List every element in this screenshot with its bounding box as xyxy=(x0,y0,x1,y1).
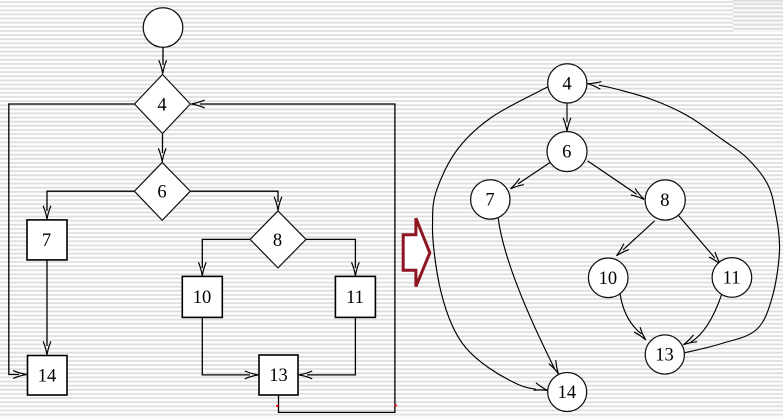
process box 10 xyxy=(182,276,222,317)
process box 11 xyxy=(335,276,375,317)
svg-text:8: 8 xyxy=(660,191,669,211)
svg-text:14: 14 xyxy=(558,383,577,403)
graph node 11 xyxy=(712,258,752,298)
graph node 13 xyxy=(645,335,684,374)
graph node 14 xyxy=(548,373,587,412)
graph node 8 xyxy=(645,180,685,220)
red transform arrow xyxy=(403,218,430,286)
wire 8 to process 10 xyxy=(202,239,250,268)
wire 13 loop back to decision 4 xyxy=(200,104,395,412)
wire 4 to decision 6 xyxy=(162,134,164,153)
svg-text:11: 11 xyxy=(346,288,364,308)
svg-text:8: 8 xyxy=(273,231,282,251)
edge 11 to 13 xyxy=(691,294,722,342)
wire 8 to process 11 xyxy=(306,239,355,268)
edge 6 to 7 xyxy=(518,162,550,184)
edge 6 to 8 xyxy=(588,161,637,194)
red artifact dot right xyxy=(395,404,397,406)
process box 14 xyxy=(28,356,68,396)
edge 7 to 14 xyxy=(498,218,554,369)
red artifact dot left xyxy=(276,405,278,407)
edge 4 to 14 xyxy=(432,86,548,389)
wire 10 to process 13 xyxy=(202,317,250,375)
wire 6 to decision 8 xyxy=(190,191,278,202)
svg-text:13: 13 xyxy=(269,366,288,386)
graph node 7 xyxy=(471,180,510,219)
edge 13 to 4 xyxy=(599,85,780,353)
svg-text:13: 13 xyxy=(655,346,674,366)
edge 4 to 6 xyxy=(566,103,568,122)
svg-text:14: 14 xyxy=(38,367,57,387)
wire 4 loop to process 14 xyxy=(9,104,135,375)
wire 11 to process 13 xyxy=(307,317,355,375)
wire 7 to process 14 xyxy=(46,260,48,346)
decision diamond 6 xyxy=(134,162,190,220)
wire start to decision 4 xyxy=(162,47,164,65)
edge 8 to 11 xyxy=(678,215,715,258)
process box 7 xyxy=(27,220,67,260)
svg-text:6: 6 xyxy=(157,183,166,203)
svg-text:7: 7 xyxy=(42,231,51,251)
svg-text:6: 6 xyxy=(562,143,571,163)
wire 6 to process 7 xyxy=(47,191,134,211)
svg-text:10: 10 xyxy=(193,288,212,308)
svg-text:4: 4 xyxy=(157,96,166,116)
graph node 10 xyxy=(588,258,628,298)
decision diamond 4 xyxy=(135,75,191,134)
svg-text:4: 4 xyxy=(562,75,571,95)
process box 13 xyxy=(259,355,298,395)
graph node 6 xyxy=(547,132,587,172)
graph node 4 xyxy=(548,64,587,103)
decision diamond 8 xyxy=(250,211,306,268)
svg-text:10: 10 xyxy=(599,269,618,289)
svg-text:11: 11 xyxy=(723,269,741,289)
start circle xyxy=(143,8,183,48)
edge 8 to 10 xyxy=(623,221,654,250)
svg-text:7: 7 xyxy=(485,191,494,211)
edge 10 to 13 xyxy=(620,294,642,335)
